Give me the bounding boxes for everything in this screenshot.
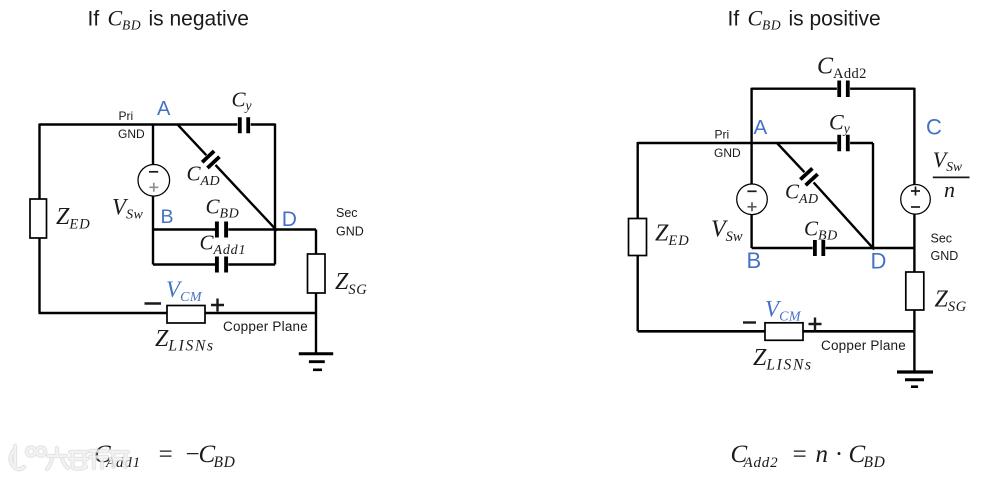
resistor ZED	[30, 199, 91, 238]
capacitor CBD right	[804, 217, 838, 257]
capacitor Cy right	[829, 110, 850, 152]
capacitor CAD	[187, 151, 220, 189]
node A right	[754, 116, 768, 139]
wire right outer vertical down to ground	[913, 214, 915, 371]
node A	[157, 98, 171, 120]
wire B to D to Sec GND	[752, 247, 915, 249]
resistor ZLISNs	[155, 306, 215, 355]
svg-text:C: C	[926, 115, 942, 140]
source VSw	[112, 165, 170, 223]
svg-text:A: A	[754, 116, 768, 139]
ground right	[897, 372, 933, 387]
source VCM label	[166, 277, 203, 305]
wire D branch down to ground	[315, 230, 317, 353]
svg-text:GND: GND	[118, 127, 145, 141]
node B	[161, 206, 174, 228]
svg-text:GND: GND	[336, 225, 364, 239]
wire A to source	[750, 143, 752, 184]
wire source to B	[750, 214, 752, 248]
source VCM polarity minus	[145, 302, 162, 304]
title right	[728, 6, 881, 33]
resistor ZSG	[308, 254, 368, 298]
label Copper Plane right	[821, 338, 906, 353]
svg-text:GND: GND	[714, 146, 741, 160]
svg-text:IfCBDis negative: IfCBDis negative	[88, 6, 249, 33]
wire left outer vertical right circuit	[637, 142, 639, 331]
wire bottom (copper plane rail)	[39, 312, 317, 315]
resistor ZED right	[629, 219, 690, 256]
wire inner right vertical	[872, 143, 874, 248]
label Sec GND right	[931, 232, 959, 264]
svg-text:B: B	[747, 248, 762, 273]
wire diagonal A to D	[178, 125, 277, 231]
capacitor CBD	[206, 195, 240, 238]
wire upper right vertical	[913, 88, 915, 185]
wire right vertical	[274, 124, 276, 265]
capacitor Cy	[232, 88, 252, 134]
resistor ZSG right	[906, 272, 967, 315]
label Sec GND	[336, 206, 364, 239]
svg-text:Pri: Pri	[119, 109, 134, 123]
svg-text:D: D	[282, 208, 297, 231]
source VCM right polarity plus	[809, 318, 822, 331]
capacitor CAdd1	[200, 231, 247, 273]
svg-text:Sec: Sec	[931, 232, 953, 246]
svg-text:Copper Plane: Copper Plane	[223, 319, 308, 334]
capacitor CAD right	[785, 168, 818, 207]
source VCM right polarity minus	[743, 321, 756, 323]
wire top (Pri GND rail)	[40, 123, 276, 125]
wire CAdd2 top rail	[752, 87, 915, 89]
source VCM right label	[765, 297, 802, 325]
svg-text:Copper Plane: Copper Plane	[821, 338, 906, 353]
svg-text:Pri: Pri	[715, 128, 730, 142]
node C right	[926, 115, 942, 140]
source VSw right	[711, 184, 767, 245]
capacitor CAdd2	[817, 54, 867, 98]
wire upper left vertical	[750, 88, 752, 143]
wire left vertical	[38, 124, 40, 314]
label Pri GND	[118, 109, 145, 141]
wire source to node B	[152, 196, 154, 230]
source VCM polarity plus	[211, 299, 224, 312]
svg-text:IfCBDis positive: IfCBDis positive	[728, 6, 881, 33]
svg-text:D: D	[871, 249, 887, 274]
ground left	[299, 354, 333, 370]
resistor ZLISNs right	[753, 323, 813, 374]
formula CAdd2	[731, 441, 886, 471]
node D	[282, 208, 297, 231]
svg-text:B: B	[161, 206, 174, 228]
wire CAdd1 loop	[153, 230, 275, 265]
label Copper Plane left	[223, 319, 308, 334]
wire bottom rail right	[638, 330, 915, 333]
wire node A down to source	[152, 125, 154, 166]
node B right	[747, 248, 762, 273]
svg-text:A: A	[157, 98, 171, 120]
node D right	[871, 249, 887, 274]
formula CAdd1	[94, 441, 236, 471]
label Pri GND right	[714, 128, 741, 161]
svg-text:Sec: Sec	[336, 206, 358, 220]
svg-text:GND: GND	[931, 249, 959, 263]
svg-text:n: n	[944, 177, 955, 202]
wire diagonal A to D right	[777, 143, 874, 249]
source VSw over n	[901, 147, 970, 214]
title left	[88, 6, 249, 33]
wire A rail	[638, 142, 873, 144]
watermark	[11, 446, 129, 469]
wire B to D and on to ZSG branch	[153, 228, 316, 230]
